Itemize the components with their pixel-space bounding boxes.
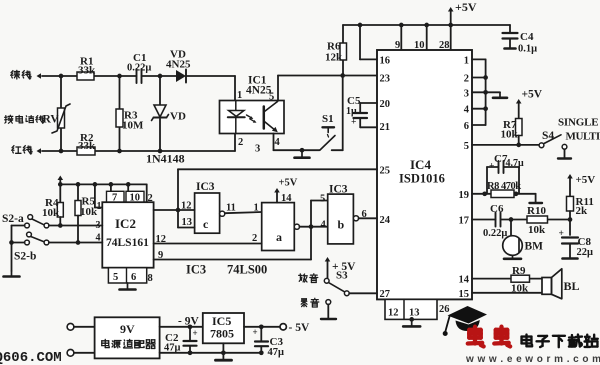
+5V arrow top (448, 0, 477, 25)
wire bus to IC4 pin28 (450, 25, 452, 50)
wire bus to IC4 pin10 (426, 25, 428, 50)
svg-text:IC3: IC3 (196, 181, 215, 193)
wire adapter to IC5 with -9V label (160, 316, 203, 330)
wire S2 left bus and ground (4, 226, 25, 277)
svg-text:25: 25 (380, 166, 391, 177)
wire IC4 pin25 to IC3c inputs (178, 169, 377, 227)
resistor R10 10k (527, 205, 548, 236)
label 红线 (12, 146, 32, 154)
svg-text:1μ: 1μ (346, 106, 357, 117)
svg-text:11: 11 (226, 203, 236, 214)
resistor R9 10k (511, 265, 530, 295)
svg-text:4: 4 (275, 137, 281, 148)
power section bottom rail with IC5 ground (160, 343, 264, 360)
svg-text:23: 23 (380, 74, 391, 85)
watermark www.eeworm.com (465, 354, 600, 365)
watermark graduation cap logo (443, 306, 487, 336)
svg-text:4: 4 (321, 220, 327, 231)
wire 绿线 top input line with left arrow (37, 73, 236, 100)
label 接电话线 RV (5, 114, 60, 126)
svg-text:R8 470k: R8 470k (487, 181, 521, 192)
svg-text:1: 1 (237, 90, 242, 101)
svg-text:IC4: IC4 (410, 157, 431, 172)
svg-text:+: + (193, 328, 198, 338)
svg-text:+: + (351, 118, 356, 128)
svg-text:5: 5 (464, 141, 469, 152)
ground at S1 left node (295, 148, 310, 158)
op-to coupler IC1 4N25 box (220, 75, 285, 134)
IC chip IC2 74LS161 (102, 202, 153, 268)
svg-text:9: 9 (395, 40, 400, 51)
IC2 top pin box 10 (126, 184, 144, 203)
svg-text:6: 6 (131, 272, 136, 283)
label 放音 (299, 274, 318, 283)
svg-text:RV: RV (43, 114, 60, 126)
capacitor C8 22u (559, 220, 594, 259)
svg-text:VD: VD (170, 111, 186, 123)
svg-text:0.1μ: 0.1μ (518, 44, 537, 55)
svg-text:IC2: IC2 (115, 216, 136, 231)
svg-text:- 9V: - 9V (178, 316, 199, 328)
svg-text:+5V: +5V (455, 0, 477, 14)
svg-text:a: a (276, 230, 282, 244)
svg-text:1: 1 (97, 201, 102, 212)
IC1 phototransistor (264, 101, 278, 133)
capacitor C3 47u (253, 327, 285, 358)
svg-text:12k: 12k (325, 52, 343, 64)
svg-text:+5V: +5V (279, 178, 298, 189)
resistor R4 10k (42, 184, 63, 225)
resistor R1 33k (77, 56, 96, 81)
svg-text:5: 5 (269, 92, 274, 103)
capacitor C7 4.7u parallel loop (487, 153, 524, 194)
capacitor C2 47u (164, 327, 198, 354)
microphone BM (503, 220, 543, 259)
svg-text:15: 15 (459, 289, 470, 300)
ground below IC2 (120, 283, 136, 290)
gate IC3a NAND with +5V pin14 (262, 178, 298, 251)
svg-text:6: 6 (362, 209, 367, 220)
varistor RV (52, 76, 70, 151)
IC2 top pin 2 (148, 193, 153, 204)
svg-text:c: c (203, 217, 209, 231)
svg-text:0.22μ: 0.22μ (127, 63, 151, 74)
svg-text:BL: BL (564, 279, 580, 293)
label 绿线 (11, 70, 31, 79)
wire IC2 carry to node (154, 208, 181, 213)
wire IC2 pin9 to node (154, 250, 311, 261)
svg-text:10: 10 (414, 40, 425, 51)
svg-text:74LS161: 74LS161 (106, 237, 149, 249)
svg-text:ISD1016: ISD1016 (399, 172, 445, 186)
wire IC4 pin17 row with C6 and R10 (472, 217, 572, 222)
IC3c input wires 12 13 (178, 201, 195, 229)
wire bus to IC2 pin1 (95, 184, 102, 212)
svg-text:26: 26 (439, 304, 450, 315)
switch S3 record/play with +5V (324, 257, 377, 296)
capacitor C4 0.1u with ground (503, 25, 538, 55)
junction dots input network (59, 74, 163, 154)
svg-text:4.7μ: 4.7μ (506, 158, 525, 169)
IC2 bottom sub box pins 5 6 8 (108, 268, 152, 284)
svg-text:24: 24 (380, 215, 391, 226)
capacitor C6 0.22u (483, 203, 507, 239)
watermark Q606.COM (0, 350, 62, 365)
svg-text:0.22μ: 0.22μ (483, 228, 507, 239)
capacitor C5 1u between pin20 and pin21 (346, 95, 377, 128)
svg-text:9V: 9V (120, 322, 135, 336)
output wire to 5V terminal (244, 322, 310, 334)
svg-text:+: + (559, 229, 564, 239)
label 1N4148 (146, 152, 185, 166)
+5V arrow for IC2 pull-up bus (58, 176, 64, 185)
svg-text:S2-a: S2-a (2, 213, 24, 225)
resistor R5 10k (75, 184, 98, 242)
bus junction dots (358, 23, 453, 28)
IC1 internal LED (228, 101, 245, 134)
label 录音 and ground contact (301, 298, 336, 319)
wire S1 right contact up to pin23 node (332, 73, 345, 150)
svg-text:10M: 10M (122, 120, 144, 132)
IC regulator IC5 7805 (203, 313, 244, 343)
wire bus to IC4 pin16 (360, 25, 377, 59)
svg-text:12: 12 (156, 234, 167, 245)
svg-text:S3: S3 (336, 270, 348, 282)
svg-text:5: 5 (113, 272, 118, 283)
svg-text:2k: 2k (576, 205, 589, 217)
svg-text:4N25: 4N25 (246, 85, 272, 97)
svg-text:IC3: IC3 (186, 263, 206, 277)
svg-text:12: 12 (388, 308, 399, 319)
svg-text:+5V: +5V (576, 174, 596, 186)
svg-text:10k: 10k (42, 207, 60, 219)
diode VD 4N25 (horizontal) (166, 49, 191, 83)
svg-text:w w w . e e w o r m . c o m: w w w . e e w o r m . c o m (465, 354, 600, 365)
svg-text:S2-b: S2-b (14, 251, 36, 263)
svg-text:2: 2 (252, 233, 257, 244)
wire bus to IC4 pin9 (400, 25, 402, 50)
wire pin3 to ground (472, 92, 507, 98)
svg-text:2: 2 (238, 137, 243, 148)
svg-text:21: 21 (380, 122, 391, 133)
IC U4 ISD1016 main box (377, 50, 472, 299)
resistor R2 33k (77, 132, 96, 155)
label IC3 74LS00 (186, 263, 267, 277)
svg-text:16: 16 (380, 56, 391, 67)
wire IC2 pin12 to IC3a pin2 (154, 233, 262, 245)
svg-text:1: 1 (254, 203, 259, 214)
svg-text:S4: S4 (542, 130, 554, 142)
svg-text:4N25: 4N25 (166, 59, 191, 71)
svg-text:17: 17 (459, 216, 470, 227)
svg-text:10k: 10k (528, 224, 546, 236)
IC4 right pins 1-6 bus (472, 59, 488, 125)
IC3c output 11 to IC3a pin1 (220, 203, 262, 217)
power adapter input terminals (67, 323, 95, 356)
resistor R11 2k with +5V (567, 174, 596, 220)
svg-text:74LS00: 74LS00 (227, 263, 267, 277)
svg-text:22μ: 22μ (577, 247, 594, 258)
capacitor C1 0.22u (127, 52, 151, 83)
gate IC3c NAND (195, 181, 220, 233)
resistor R6 12k (vertical) (325, 25, 347, 76)
svg-text:13: 13 (409, 308, 420, 319)
svg-text:47μ: 47μ (164, 343, 181, 354)
svg-text:33k: 33k (78, 65, 96, 77)
svg-text:+: + (489, 162, 494, 172)
svg-text:1: 1 (464, 56, 469, 67)
svg-text:BM: BM (525, 241, 544, 253)
IC2 pull-up bus wire (58, 182, 147, 202)
IC4 pin labels top row 9 10 28 (395, 40, 450, 51)
svg-text:+: + (253, 327, 258, 337)
IC1 pin number labels 1 2 3 4 5 (237, 90, 281, 155)
gate IC3b NAND (320, 184, 353, 244)
box 9V 电源适配器 (95, 317, 160, 358)
ground below IC4 pins 12 13 (403, 317, 420, 326)
svg-text:9: 9 (158, 250, 163, 261)
svg-text:14: 14 (281, 193, 292, 204)
svg-text:S1: S1 (322, 113, 334, 125)
wire 红线 bottom input line with left arrow (37, 134, 236, 154)
svg-text:R10: R10 (527, 205, 546, 217)
svg-text:R9: R9 (512, 265, 526, 277)
svg-text:27: 27 (380, 289, 391, 300)
svg-text:- 5V: - 5V (289, 322, 310, 334)
diode VD 1N4148 (vertical zener) (152, 76, 186, 151)
IC4 pin labels left column (380, 56, 391, 301)
svg-text:13: 13 (182, 217, 193, 228)
svg-text:14: 14 (459, 275, 470, 286)
speaker BL (542, 269, 580, 299)
IC2 top pin box 7 (107, 184, 125, 203)
wire S2-b to IC2 pin4 (49, 233, 102, 245)
watermark red bugs 虫虫 (468, 327, 510, 347)
switch S2-b (14, 232, 49, 262)
svg-text:19: 19 (459, 190, 470, 201)
wire IC4 pin15 row (472, 292, 542, 294)
svg-text:1N4148: 1N4148 (146, 152, 185, 166)
svg-text:2: 2 (464, 74, 469, 85)
svg-text:C4: C4 (520, 31, 534, 43)
resistor R8 470k (487, 181, 521, 198)
IC4 bottom sub box pins 12 13 (385, 299, 450, 319)
svg-text:33k: 33k (78, 140, 96, 152)
svg-text:b: b (338, 218, 345, 232)
switch S2-a (2, 213, 49, 228)
wire IC4 pin19 row (472, 191, 542, 203)
svg-text:+5V: +5V (522, 89, 543, 101)
wire IC4 pin5 to S4 (472, 144, 539, 146)
wire IC4 pin14 row with R9 (472, 278, 542, 280)
svg-text:3: 3 (96, 220, 101, 231)
svg-text:5: 5 (320, 194, 325, 205)
+5V top supply bus (343, 24, 510, 26)
labels SINGLE MULTI (558, 117, 600, 143)
svg-text:20: 20 (380, 99, 391, 110)
IC3b output 6 to IC4 pin24 (353, 209, 377, 221)
IC1 light arrows (247, 115, 257, 123)
resistor R3 10M (vertical) (116, 76, 144, 151)
IC3a output to IC3b inputs (294, 201, 327, 260)
svg-text:47μ: 47μ (268, 347, 285, 358)
svg-text:SINGLE: SINGLE (558, 117, 598, 129)
wire IC1 pin4 / emitter to S1 (274, 134, 320, 151)
svg-text:MULTI: MULTI (566, 131, 600, 143)
wire S2-a to IC2 pin3 (49, 220, 102, 231)
svg-text:4: 4 (464, 105, 470, 116)
watermark 电子下载站 (522, 335, 598, 348)
svg-text:4: 4 (96, 233, 101, 244)
wire IC1 pin5 to node over R6 to IC4 pin23 (278, 76, 377, 101)
svg-text:28: 28 (439, 40, 450, 51)
switch S4 SINGLE/MULTI (539, 130, 571, 159)
svg-text:7805: 7805 (210, 327, 234, 341)
svg-text:10k: 10k (501, 129, 519, 141)
svg-text:Q606.COM: Q606.COM (0, 350, 62, 365)
svg-text:3: 3 (255, 144, 260, 155)
svg-text:8: 8 (148, 273, 153, 284)
svg-text:3: 3 (464, 89, 469, 100)
resistor R7 10k with +5V (501, 89, 543, 148)
svg-text:12: 12 (181, 201, 192, 212)
switch S1 push-button (320, 113, 335, 150)
svg-text:6: 6 (464, 121, 469, 132)
IC4 pin labels right column (459, 56, 470, 301)
svg-text:C6: C6 (490, 203, 504, 215)
